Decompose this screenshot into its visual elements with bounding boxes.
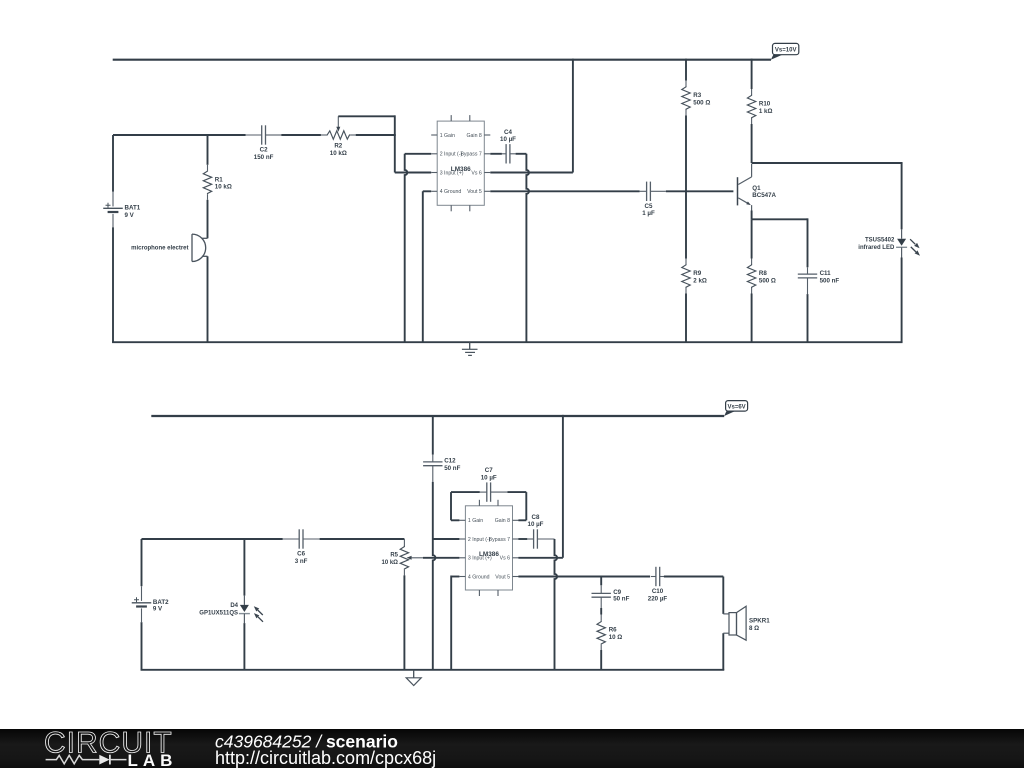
- svg-text:R1: R1: [215, 176, 223, 183]
- svg-text:Bypass 7: Bypass 7: [489, 537, 510, 543]
- svg-text:C5: C5: [645, 203, 653, 210]
- svg-text:infrared LED: infrared LED: [858, 245, 895, 251]
- svg-text:9 V: 9 V: [153, 605, 163, 612]
- svg-text:R3: R3: [693, 92, 701, 99]
- svg-text:150 nF: 150 nF: [254, 154, 274, 161]
- svg-text:C6: C6: [297, 551, 305, 558]
- svg-text:Vs=10V: Vs=10V: [775, 48, 797, 54]
- svg-text:C11: C11: [820, 270, 832, 277]
- svg-text:C7: C7: [485, 467, 493, 474]
- svg-text:10 kΩ: 10 kΩ: [215, 184, 232, 191]
- svg-text:http://circuitlab.com/cpcx68j: http://circuitlab.com/cpcx68j: [215, 748, 436, 768]
- svg-text:Bypass 7: Bypass 7: [460, 152, 481, 158]
- svg-text:1 Gain: 1 Gain: [468, 518, 483, 524]
- svg-text:4 Ground: 4 Ground: [440, 189, 462, 195]
- svg-text:Vs 6: Vs 6: [471, 170, 481, 176]
- svg-text:3 nF: 3 nF: [295, 558, 308, 565]
- svg-text:SPKR1: SPKR1: [749, 618, 770, 625]
- svg-text:1 Gain: 1 Gain: [440, 133, 455, 139]
- svg-text:10 Ω: 10 Ω: [609, 634, 623, 641]
- svg-text:R10: R10: [759, 101, 771, 108]
- svg-text:10 µF: 10 µF: [481, 475, 497, 482]
- svg-text:R2: R2: [334, 143, 342, 150]
- svg-text:microphone electret: microphone electret: [131, 246, 188, 252]
- svg-text:8 Ω: 8 Ω: [749, 625, 759, 632]
- svg-text:C2: C2: [260, 147, 268, 154]
- svg-text:R9: R9: [693, 270, 701, 277]
- svg-text:GP1UX511QS: GP1UX511QS: [199, 611, 238, 617]
- svg-text:Gain 8: Gain 8: [467, 133, 482, 139]
- svg-text:10 µF: 10 µF: [500, 136, 516, 143]
- svg-text:Gain 8: Gain 8: [495, 518, 510, 524]
- svg-text:10 µF: 10 µF: [528, 521, 544, 528]
- svg-text:LAB: LAB: [128, 751, 178, 768]
- svg-text:Vout 5: Vout 5: [467, 189, 482, 195]
- svg-text:1 kΩ: 1 kΩ: [759, 108, 773, 115]
- svg-text:LM386: LM386: [451, 166, 471, 173]
- svg-text:Vs=6V: Vs=6V: [728, 404, 746, 410]
- svg-text:10 kΩ: 10 kΩ: [330, 150, 347, 157]
- svg-text:10 kΩ: 10 kΩ: [382, 560, 399, 566]
- svg-text:C12: C12: [444, 457, 456, 464]
- svg-text:4 Ground: 4 Ground: [468, 574, 490, 580]
- svg-text:C10: C10: [652, 588, 664, 595]
- svg-text:50 nF: 50 nF: [613, 596, 629, 603]
- svg-text:LM386: LM386: [479, 551, 499, 558]
- svg-text:2 Input (-): 2 Input (-): [468, 537, 491, 543]
- svg-text:500 nF: 500 nF: [820, 277, 840, 284]
- svg-text:D4: D4: [230, 603, 238, 609]
- svg-text:500 Ω: 500 Ω: [693, 99, 710, 106]
- svg-text:2 kΩ: 2 kΩ: [693, 277, 707, 284]
- svg-text:BC547A: BC547A: [752, 192, 776, 199]
- svg-text:220 µF: 220 µF: [648, 595, 668, 602]
- svg-text:500 Ω: 500 Ω: [759, 277, 776, 284]
- svg-text:BAT1: BAT1: [125, 205, 141, 212]
- svg-text:TSUS5402: TSUS5402: [865, 238, 895, 244]
- svg-text:1 µF: 1 µF: [642, 210, 655, 217]
- svg-text:Vs 6: Vs 6: [500, 556, 510, 562]
- svg-text:50 nF: 50 nF: [444, 465, 460, 472]
- svg-text:9 V: 9 V: [125, 212, 135, 219]
- svg-text:Q1: Q1: [752, 185, 761, 192]
- svg-text:R6: R6: [609, 626, 617, 633]
- svg-text:2 Input (-): 2 Input (-): [440, 152, 463, 158]
- svg-text:Vout 5: Vout 5: [495, 574, 510, 580]
- svg-text:R8: R8: [759, 270, 767, 277]
- svg-text:R5: R5: [390, 553, 398, 559]
